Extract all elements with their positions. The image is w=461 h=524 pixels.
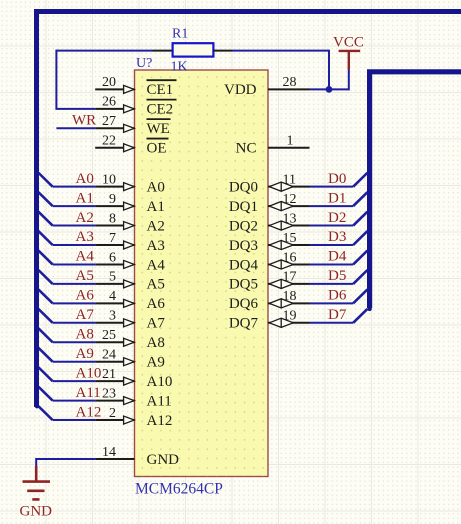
pin number 3 [109, 309, 116, 324]
pin 5 input arrow [124, 280, 135, 288]
svg-text:D5: D5 [328, 268, 346, 284]
svg-text:23: 23 [102, 386, 116, 401]
svg-text:16: 16 [283, 250, 297, 265]
pin 12 (DQ1) line [268, 205, 310, 207]
svg-text:25: 25 [102, 328, 116, 343]
svg-text:DQ5: DQ5 [229, 277, 258, 293]
pin number 26 [102, 95, 116, 110]
wire net D7 [310, 322, 354, 324]
net label A1 [76, 190, 94, 206]
pin 13 bidirectional arrow [269, 221, 293, 230]
resistor R1 body [173, 43, 214, 56]
wire vertical down to CE2 pin [56, 50, 95, 109]
junction of A5 entry on bus [35, 268, 39, 272]
pin number 13 [283, 211, 297, 226]
pin name A2 [147, 218, 165, 234]
pin number 17 [283, 270, 297, 285]
pin name A3 [147, 238, 165, 254]
svg-text:A8: A8 [76, 326, 94, 342]
junction of D4 entry on bus [367, 248, 371, 252]
bus entry for net A12 [38, 406, 52, 420]
pin name A7 [147, 316, 166, 332]
pin 22 (OE) line [95, 147, 134, 149]
junction of A4 entry on bus [35, 248, 39, 252]
junction of A1 entry on bus [35, 190, 39, 194]
net label D1 [328, 190, 346, 206]
resistor R1 designator label [172, 27, 188, 42]
resistor R1 right lead (pin 2) [213, 50, 232, 52]
wire net A3 [53, 244, 96, 246]
pin name DQ3 [229, 238, 258, 254]
wire resistor to VDD node [232, 51, 329, 90]
svg-text:DQ7: DQ7 [229, 316, 259, 332]
pin name GND [147, 452, 180, 468]
net label A0 [76, 171, 94, 187]
wire net A4 [53, 263, 96, 265]
pin number 20 [102, 75, 116, 90]
pin number 27 [102, 114, 116, 129]
pin 18 (DQ6) line [268, 302, 310, 304]
wire net D0 [310, 186, 354, 188]
pin name VDD [224, 82, 257, 98]
bus entry for net D0 [353, 173, 367, 187]
svg-text:VCC: VCC [333, 35, 364, 51]
svg-text:DQ6: DQ6 [229, 296, 259, 312]
net label D5 [328, 268, 346, 284]
svg-text:8: 8 [109, 211, 116, 226]
pin 23 (A11) line [95, 400, 134, 402]
pin 7 (A3) line [95, 244, 134, 246]
wire GND net [36, 458, 95, 460]
pin name A5 [147, 277, 165, 293]
pin 11 bidirectional arrow [269, 182, 293, 191]
svg-text:A9: A9 [147, 355, 165, 371]
net label D4 [328, 249, 347, 265]
pin 5 (A5) line [95, 283, 134, 285]
resistor R1 value label 1K [171, 60, 188, 75]
pin 23 input arrow [124, 397, 135, 405]
net label WR [72, 113, 96, 129]
svg-text:A9: A9 [76, 346, 94, 362]
net label A12 [76, 404, 102, 420]
net label GND [20, 504, 53, 520]
svg-text:NC: NC [236, 141, 257, 157]
pin 25 (A8) line [95, 341, 134, 343]
svg-text:D0: D0 [328, 171, 346, 187]
net label D2 [328, 210, 346, 226]
pin number 22 [102, 134, 116, 149]
pin 20 input arrow [124, 85, 135, 93]
pin name DQ4 [229, 257, 259, 273]
svg-text:1K: 1K [171, 60, 188, 75]
svg-text:A5: A5 [147, 277, 165, 293]
svg-text:28: 28 [283, 75, 297, 90]
wire net D6 [310, 302, 354, 304]
svg-text:A10: A10 [76, 365, 102, 381]
pin name DQ6 [229, 296, 259, 312]
power symbol VCC [339, 51, 361, 70]
svg-text:9: 9 [109, 192, 116, 207]
wire net A7 [53, 322, 96, 324]
junction of D5 entry on bus [367, 268, 371, 272]
svg-text:24: 24 [102, 348, 116, 363]
bus: top horizontal address/data bus [34, 9, 461, 14]
pin 22 input arrow [124, 144, 135, 152]
bus entry for net A3 [38, 231, 52, 245]
svg-text:A1: A1 [147, 199, 165, 215]
bus entry for net A10 [38, 367, 52, 381]
svg-text:DQ4: DQ4 [229, 257, 259, 273]
bus entry for net A0 [38, 173, 52, 187]
wire net D2 [310, 225, 354, 227]
junction of A8 entry on bus [35, 326, 39, 330]
junction of D3 entry on bus [367, 229, 371, 233]
net label A7 [76, 307, 95, 323]
pin name A11 [147, 393, 172, 409]
pin number 18 [283, 289, 297, 304]
bus entry for net A8 [38, 328, 52, 342]
bus: right vertical data bus [370, 72, 461, 308]
pin 12 bidirectional arrow [269, 202, 293, 211]
pin 8 (A2) line [95, 225, 134, 227]
pin 3 input arrow [124, 319, 135, 327]
pin 2 input arrow [124, 416, 135, 424]
bus entry for net D4 [353, 251, 367, 265]
net label A2 [76, 210, 94, 226]
bus entry for net A9 [38, 348, 52, 362]
pin 8 input arrow [124, 222, 135, 230]
pin 9 (A1) line [95, 205, 134, 207]
svg-text:D3: D3 [328, 229, 346, 245]
pin 11 (DQ0) line [268, 186, 310, 188]
pin name OE [147, 139, 169, 157]
IC designator U? [136, 56, 152, 71]
svg-text:D1: D1 [328, 190, 346, 206]
pin number 11 [283, 172, 296, 187]
bus entry for net D6 [353, 289, 367, 303]
svg-text:27: 27 [102, 114, 116, 129]
pin 1 (NC) line [268, 147, 310, 149]
net label A9 [76, 346, 94, 362]
wire net A9 [53, 361, 96, 363]
wire net D1 [310, 205, 354, 207]
pin 26 input arrow [124, 105, 135, 113]
pin number 28 [283, 75, 297, 90]
ground symbol [23, 466, 51, 499]
bus entry for net A4 [38, 251, 52, 265]
wire net D4 [310, 263, 354, 265]
wire down to ground symbol [35, 458, 37, 467]
svg-text:A7: A7 [147, 316, 166, 332]
svg-text:A8: A8 [147, 335, 165, 351]
IC U? MCM6264CP body [135, 70, 269, 477]
net label A11 [76, 385, 101, 401]
bus entry for net A11 [38, 387, 52, 401]
pin number 12 [283, 192, 297, 207]
junction on VDD net [326, 86, 333, 93]
wire net WR [56, 127, 95, 129]
bus entry for net A5 [38, 270, 52, 284]
net label D7 [328, 307, 347, 323]
wire net A5 [53, 283, 96, 285]
resistor R1 left lead (pin 1) [153, 50, 173, 52]
net label D0 [328, 171, 346, 187]
svg-text:CE2: CE2 [147, 102, 174, 118]
svg-text:A4: A4 [76, 249, 95, 265]
wire net A1 [53, 205, 96, 207]
svg-text:1: 1 [287, 134, 294, 149]
wire net A10 [53, 380, 96, 382]
pin number 15 [283, 231, 297, 246]
pin name A8 [147, 335, 165, 351]
pin 17 bidirectional arrow [269, 279, 293, 288]
pin number 6 [109, 250, 116, 265]
pin 15 (DQ3) line [268, 244, 310, 246]
net label A6 [76, 288, 95, 304]
svg-text:WE: WE [147, 121, 170, 137]
svg-text:14: 14 [102, 445, 116, 460]
svg-text:A1: A1 [76, 190, 94, 206]
net label A10 [76, 365, 102, 381]
IC part number MCM6264CP [135, 481, 223, 498]
pin name A1 [147, 199, 165, 215]
svg-text:DQ2: DQ2 [229, 218, 258, 234]
pin number 19 [283, 309, 297, 324]
wire net D5 [310, 283, 354, 285]
pin number 23 [102, 386, 116, 401]
pin name DQ1 [229, 199, 258, 215]
svg-text:A7: A7 [76, 307, 95, 323]
svg-text:DQ1: DQ1 [229, 199, 258, 215]
svg-text:5: 5 [109, 270, 116, 285]
junction of A2 entry on bus [35, 209, 39, 213]
svg-text:A12: A12 [147, 413, 173, 429]
wire net A11 [53, 400, 96, 402]
pin 10 (A0) line [95, 186, 134, 188]
pin number 16 [283, 250, 297, 265]
svg-text:12: 12 [283, 192, 297, 207]
svg-text:D6: D6 [328, 288, 347, 304]
net label A4 [76, 249, 95, 265]
svg-text:GND: GND [147, 452, 180, 468]
junction of D2 entry on bus [367, 209, 371, 213]
pin number 9 [109, 192, 116, 207]
svg-text:15: 15 [283, 231, 297, 246]
svg-text:VDD: VDD [224, 82, 257, 98]
svg-text:7: 7 [109, 231, 116, 246]
svg-text:18: 18 [283, 289, 297, 304]
bus entry for net D3 [353, 231, 367, 245]
svg-text:19: 19 [283, 309, 297, 324]
svg-text:DQ3: DQ3 [229, 238, 258, 254]
net label A8 [76, 326, 94, 342]
bus entry for net D2 [353, 212, 367, 226]
svg-text:6: 6 [109, 250, 116, 265]
pin number 4 [109, 289, 116, 304]
junction of D6 entry on bus [367, 287, 371, 291]
svg-text:A0: A0 [147, 179, 165, 195]
pin name A9 [147, 355, 165, 371]
svg-text:WR: WR [72, 113, 96, 129]
svg-text:10: 10 [102, 172, 116, 187]
pin 10 input arrow [124, 183, 135, 191]
svg-text:A2: A2 [76, 210, 94, 226]
junction of A7 entry on bus [35, 307, 39, 311]
pin number 7 [109, 231, 116, 246]
pin 27 (WE) line [95, 127, 134, 129]
net label A3 [76, 229, 94, 245]
svg-text:A6: A6 [147, 296, 166, 312]
bus entry for net A2 [38, 212, 52, 226]
pin name CE2 [147, 100, 177, 118]
pin name A4 [147, 257, 166, 273]
svg-text:11: 11 [283, 172, 296, 187]
pin name A12 [147, 413, 173, 429]
svg-text:U?: U? [136, 56, 152, 71]
wire net A2 [53, 225, 96, 227]
pin name DQ2 [229, 218, 258, 234]
pin 19 (DQ7) line [268, 322, 310, 324]
svg-text:2: 2 [109, 406, 116, 421]
pin 28 (VDD) line [268, 88, 310, 90]
pin 25 input arrow [124, 338, 135, 346]
wire up to VCC symbol [348, 69, 350, 90]
pin 24 input arrow [124, 358, 135, 366]
junction of A11 entry on bus [35, 385, 39, 389]
bus entry for net D7 [353, 309, 367, 323]
pin 16 (DQ4) line [268, 263, 310, 265]
svg-text:A2: A2 [147, 218, 165, 234]
wire net A6 [53, 302, 96, 304]
svg-text:3: 3 [109, 309, 116, 324]
svg-text:DQ0: DQ0 [229, 179, 258, 195]
pin 14 (GND) line [95, 458, 134, 460]
svg-text:GND: GND [20, 504, 53, 520]
pin 13 (DQ2) line [268, 225, 310, 227]
junction of A3 entry on bus [35, 229, 39, 233]
pin name DQ7 [229, 316, 259, 332]
pin 21 input arrow [124, 377, 135, 385]
junction of D1 entry on bus [367, 190, 371, 194]
junction of A10 entry on bus [35, 365, 39, 369]
svg-text:A3: A3 [147, 238, 165, 254]
pin 21 (A10) line [95, 380, 134, 382]
bus entry for net D5 [353, 270, 367, 284]
pin 6 input arrow [124, 260, 135, 268]
svg-text:A11: A11 [147, 393, 172, 409]
pin number 21 [102, 367, 116, 382]
wire from bus-side to resistor (net to CE2) [56, 50, 152, 52]
svg-text:21: 21 [102, 367, 116, 382]
pin number 1 [287, 134, 294, 149]
pin name A6 [147, 296, 166, 312]
wire net D3 [310, 244, 354, 246]
pin 24 (A9) line [95, 361, 134, 363]
pin 19 bidirectional arrow [269, 318, 293, 327]
svg-text:D7: D7 [328, 307, 347, 323]
pin 6 (A4) line [95, 263, 134, 265]
pin number 14 [102, 445, 116, 460]
net label D6 [328, 288, 347, 304]
svg-text:A11: A11 [76, 385, 101, 401]
svg-text:13: 13 [283, 211, 297, 226]
svg-text:A0: A0 [76, 171, 94, 187]
svg-text:A3: A3 [76, 229, 94, 245]
pin name DQ5 [229, 277, 258, 293]
pin name A0 [147, 179, 165, 195]
wire net A12 [53, 419, 96, 421]
svg-text:17: 17 [283, 270, 297, 285]
junction of A12 entry on bus [35, 404, 39, 408]
wire net A8 [53, 341, 96, 343]
pin name DQ0 [229, 179, 258, 195]
svg-text:22: 22 [102, 134, 116, 149]
svg-text:26: 26 [102, 95, 116, 110]
net label D3 [328, 229, 346, 245]
pin 9 input arrow [124, 202, 135, 210]
pin name A10 [147, 374, 173, 390]
pin number 8 [109, 211, 116, 226]
bus: left vertical address bus [34, 9, 39, 407]
pin number 5 [109, 270, 116, 285]
pin 3 (A7) line [95, 322, 134, 324]
pin 2 (A12) line [95, 419, 134, 421]
pin 7 input arrow [124, 241, 135, 249]
svg-text:MCM6264CP: MCM6264CP [135, 481, 223, 498]
junction of A6 entry on bus [35, 287, 39, 291]
svg-text:OE: OE [147, 141, 167, 157]
pin 20 (CE1) line [95, 88, 134, 90]
pin name NC [236, 141, 257, 157]
wire net A0 [53, 186, 96, 188]
pin 4 input arrow [124, 299, 135, 307]
pin 27 input arrow [124, 124, 135, 132]
pin 4 (A6) line [95, 302, 134, 304]
bus entry for net D1 [353, 192, 367, 206]
svg-text:A6: A6 [76, 288, 95, 304]
pin 16 bidirectional arrow [269, 260, 293, 269]
pin name CE1 [147, 80, 177, 98]
svg-text:A10: A10 [147, 374, 173, 390]
pin 17 (DQ5) line [268, 283, 310, 285]
net label VCC [333, 35, 364, 51]
junction of D7 entry on bus [367, 307, 371, 311]
junction of A0 entry on bus [35, 171, 39, 175]
bus entry for net A1 [38, 192, 52, 206]
pin number 25 [102, 328, 116, 343]
bus entry for net A7 [38, 309, 52, 323]
pin 26 (CE2) line [95, 108, 134, 110]
svg-text:D2: D2 [328, 210, 346, 226]
bus entry for net A6 [38, 289, 52, 303]
junction of A9 entry on bus [35, 346, 39, 350]
pin number 10 [102, 172, 116, 187]
pin 15 bidirectional arrow [269, 240, 293, 249]
svg-text:CE1: CE1 [147, 82, 174, 98]
pin number 24 [102, 348, 116, 363]
net label A5 [76, 268, 94, 284]
pin 18 bidirectional arrow [269, 299, 293, 308]
pin name WE [147, 119, 171, 137]
svg-text:20: 20 [102, 75, 116, 90]
svg-text:A12: A12 [76, 404, 102, 420]
svg-text:A4: A4 [147, 257, 166, 273]
svg-text:A5: A5 [76, 268, 94, 284]
svg-text:4: 4 [109, 289, 116, 304]
pin number 2 [109, 406, 116, 421]
junction of D0 entry on bus [367, 171, 371, 175]
svg-text:R1: R1 [172, 27, 188, 42]
